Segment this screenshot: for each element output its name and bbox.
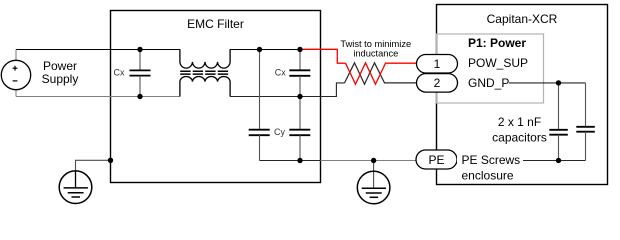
connector P1 box (437, 34, 544, 103)
svg-text:Capitan-XCR: Capitan-XCR (487, 12, 558, 26)
twisted pair: red wire zigzag (346, 63, 417, 84)
label GND_P (net, white backing over wire) (458, 75, 509, 90)
capacitor Cy1 (line to PE) (249, 50, 270, 161)
junction dot: Cx2 bottom / Cy2 top (297, 94, 302, 99)
wire PE rail inside EMC (260, 160, 321, 162)
svg-text:Twist to minimize: Twist to minimize (340, 39, 411, 49)
junction dot: PE2 tap on rail (371, 158, 376, 163)
svg-text:Cx: Cx (114, 68, 125, 78)
wire PE ground stub (left) (76, 160, 111, 171)
wire GND_P: pin2 to capacitors (458, 82, 586, 84)
Capitan-XCR enclosure box (437, 5, 608, 185)
wire top: choke to Cx2 node (230, 49, 300, 51)
EMC filter enclosure box (111, 11, 321, 183)
junction dot: C1 bottom on PE (556, 158, 561, 163)
common-mode choke: core (dashed) (180, 70, 230, 72)
junction dot: Cy2 bottom on PE rail (297, 158, 302, 163)
svg-text:PE: PE (428, 153, 444, 167)
svg-text:2: 2 (434, 76, 441, 90)
junction dot: Cx1 bottom (137, 94, 142, 99)
junction dot: Cy1 top (257, 47, 262, 52)
pin 1 stadium (417, 55, 458, 74)
svg-text:inductance: inductance (353, 49, 398, 59)
pin PE stadium (416, 150, 457, 169)
wire top: supply to choke (line) (16, 49, 180, 51)
power supply source V1 (1, 50, 30, 97)
junction dot: PE stub to EMC box (108, 158, 113, 163)
svg-text:Cy: Cy (274, 127, 285, 137)
twisted pair: dark wire zigzag (345, 63, 417, 84)
ground symbol PE1 (protective earth) (59, 171, 92, 204)
svg-text:PE Screws: PE Screws (462, 153, 521, 167)
capacitor Cx2 (289, 50, 310, 97)
capacitor Cx1 (130, 50, 151, 97)
ground symbol PE2 (protective earth) (357, 161, 390, 204)
svg-text:1: 1 (434, 57, 441, 71)
svg-text:P1: Power: P1: Power (468, 36, 526, 50)
common-mode choke: top winding (180, 49, 230, 68)
label PE Screws enclosure (white backing over wire) (457, 150, 523, 169)
wire bottom: choke to twist entry (230, 83, 344, 97)
svg-text:capacitors: capacitors (492, 131, 547, 145)
svg-text:2 x 1 nF: 2 x 1 nF (498, 115, 541, 129)
svg-text:EMC Filter: EMC Filter (187, 17, 244, 31)
wire red: Cx2 node to twist entry (300, 49, 346, 63)
svg-text:enclosure: enclosure (462, 169, 514, 183)
junction dot: Cx1 top (137, 47, 142, 52)
svg-text:Cx: Cx (275, 67, 286, 77)
wire PE: pin PE to capacitors (457, 160, 586, 162)
junction dot: C1 top on GND_P (556, 80, 561, 85)
capacitor Cy2 (neutral to PE) (289, 97, 310, 161)
svg-text:Power: Power (43, 59, 77, 73)
capacitor C1 1nF (549, 83, 568, 161)
svg-text:GND_P: GND_P (468, 76, 509, 90)
svg-text:POW_SUP: POW_SUP (468, 56, 528, 70)
capacitor C2 1nF (576, 83, 595, 161)
wire bottom: supply to choke (neutral, gray) (16, 96, 180, 98)
svg-text:Supply: Supply (42, 72, 79, 86)
junction dot: Cx2 top / red node (297, 47, 302, 52)
wire PE rail EMC to PE pin (321, 160, 417, 162)
common-mode choke: bottom winding (180, 77, 230, 97)
pin 2 stadium (417, 74, 458, 93)
